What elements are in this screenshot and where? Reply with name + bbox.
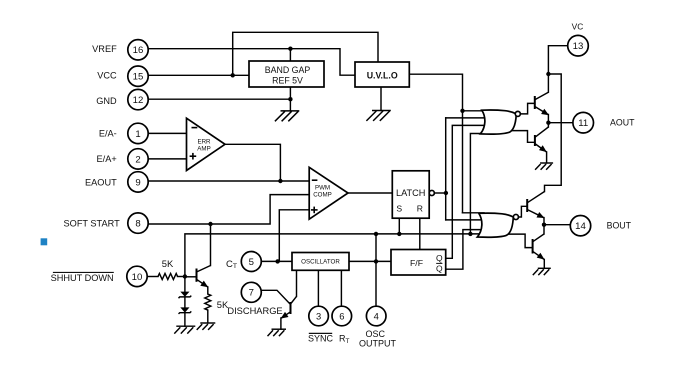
svg-text:BAND GAP: BAND GAP [265, 65, 311, 75]
ground shutdown resistor [197, 323, 216, 330]
svg-text:5: 5 [249, 257, 254, 268]
wire UVLO to NOR B input1 [463, 212, 485, 214]
junction dot GND band gap [288, 97, 292, 101]
wire Q3 emitter to ground [546, 152, 548, 163]
pin 5 CT circle [241, 252, 261, 272]
NOR gate A body [480, 110, 516, 134]
transistor Q4 output B top npn [527, 192, 544, 219]
pin 4 OSC OUTPUT circle [366, 306, 386, 326]
ground zener stack [174, 326, 195, 333]
wire Q1 emitter to 5K resistor [207, 287, 209, 294]
NOR gate B body [477, 213, 513, 237]
wire latch output to NOR B input2 [446, 219, 485, 221]
overline SYNC [309, 332, 332, 334]
wire oscillator output to F/F [349, 260, 391, 262]
svg-text:15: 15 [133, 72, 144, 83]
wire F/F Qbar output riser [446, 230, 484, 270]
junction dot CT ramp [275, 259, 279, 263]
wire pin7 to discharge transistor base [262, 290, 290, 304]
pin 3 SYNC circle [309, 306, 329, 326]
wire AOUT node to pin11 [548, 122, 572, 124]
blue square marker [41, 238, 48, 245]
wire latch R input from F/F [419, 218, 421, 249]
transistor Q2 output A top npn [535, 92, 549, 115]
svg-text:7: 7 [249, 288, 254, 299]
wire Q4 emitter to BOUT node [543, 218, 545, 225]
wire oscillator to discharge transistor collector [296, 270, 298, 296]
svg-text:13: 13 [573, 41, 584, 52]
overline F/F Qbar [436, 262, 442, 264]
svg-text:BOUT: BOUT [607, 221, 632, 231]
pin 7 DISCHARGE circle [241, 282, 261, 302]
junction dot blanking NOR B [468, 232, 472, 236]
junction dot latch output [444, 191, 448, 195]
wire EAOUT pin9 to PWM comp inverting input [147, 180, 311, 182]
wire VCC over band gap to UVLO top [233, 32, 378, 75]
junction dot UVLO NOR A [460, 109, 464, 113]
wire latch output riser [445, 118, 447, 220]
ground discharge [268, 329, 287, 336]
svg-text:1: 1 [135, 129, 140, 140]
svg-text:6: 6 [339, 310, 344, 321]
svg-text:SYNC: SYNC [308, 333, 334, 343]
svg-text:2: 2 [135, 154, 140, 165]
pin 12 GND circle [128, 89, 148, 109]
svg-text:16: 16 [133, 45, 144, 56]
transistor Q5 output B bottom npn [533, 234, 545, 260]
wire error amp output [225, 144, 280, 181]
svg-text:PWM: PWM [315, 184, 330, 191]
pin 9 EAOUT circle [128, 172, 148, 192]
wire BOUT node to pin14 [544, 224, 570, 226]
zener diode D2 [179, 307, 192, 314]
svg-text:Q: Q [436, 263, 443, 273]
junction dot AOUT node [546, 121, 550, 125]
pin 16 VREF circle [128, 40, 148, 60]
wire VCC pin15 to band gap [147, 74, 249, 76]
pin 2 E/A+ circle [128, 149, 148, 169]
svg-text:10: 10 [132, 272, 143, 283]
svg-text:VREF: VREF [92, 44, 117, 54]
wire oscillator to pin3 sync [317, 270, 319, 306]
wire latch output bubble to node [434, 192, 446, 194]
junction dot soft start [208, 222, 212, 226]
wire shutdown node to Q1 base [185, 276, 197, 278]
band gap reference box U2 [249, 61, 324, 87]
wire BOUT node to Q5 collector [543, 225, 545, 234]
svg-text:3: 3 [316, 310, 321, 321]
wire GND pin12 [147, 98, 290, 100]
wire VREF pin16 horizontal [147, 49, 355, 75]
wire VC pin13 down to rail node [548, 46, 567, 74]
svg-text:COMP: COMP [313, 191, 332, 198]
transistor Q1 shutdown npn [197, 266, 211, 288]
wire pin1 to error amp [147, 132, 188, 134]
ground output B [533, 268, 551, 275]
wire band gap to ground [289, 87, 291, 111]
svg-text:LATCH: LATCH [396, 188, 425, 198]
wire VREF to band gap top [289, 49, 291, 61]
oscillator box U6 [292, 253, 349, 271]
svg-text:CT: CT [226, 259, 237, 270]
wire blanking line oscillator to latch S and NOR gates [185, 234, 481, 277]
error amp minus glyph [192, 127, 198, 129]
svg-text:14: 14 [575, 221, 586, 232]
transistor Q6 discharge npn [281, 296, 297, 318]
wire Q5 emitter to ground [543, 260, 545, 269]
pin 13 VC circle [568, 35, 589, 56]
junction dot VCC UVLO branch [231, 73, 235, 77]
svg-text:GND: GND [96, 96, 117, 106]
wire 5K resistor to ground [207, 310, 209, 323]
wire Q2 emitter to AOUT node [547, 115, 549, 123]
wire VC rail to output B collector [545, 74, 562, 192]
wire soft start node to Q1 collector [210, 224, 212, 266]
resistor R1 5K horizontal [158, 274, 178, 280]
UVLO box U3 [355, 62, 409, 87]
wire pin10 to 5K resistor [148, 276, 158, 278]
op-amp PWM comparator U7 triangle [309, 167, 348, 219]
wire VC node to Q2 collector [547, 74, 549, 92]
wire discharge emitter to ground [280, 318, 282, 329]
op-amp error amp U1 triangle [187, 118, 226, 170]
resistor R2 5K vertical [205, 294, 211, 310]
wire blanking to oscillator output riser [375, 234, 377, 262]
svg-text:E/A-: E/A- [99, 129, 117, 139]
wire soft start pin8 to PWM comp middle input [149, 195, 311, 224]
wire between zeners [184, 297, 186, 308]
svg-text:9: 9 [135, 177, 140, 188]
junction dot BOUT node [542, 223, 546, 227]
wire zener to ground [184, 313, 186, 327]
pin 11 AOUT circle [573, 112, 594, 133]
wire UVLO to ground [380, 87, 382, 111]
svg-text:11: 11 [578, 118, 588, 129]
wire NOR A bottom to Q3 base [512, 131, 535, 143]
wire zener stack top [184, 277, 186, 292]
svg-text:U.V.L.O: U.V.L.O [367, 71, 398, 81]
svg-text:S: S [396, 203, 402, 213]
junction dot VREF band gap [288, 47, 292, 51]
flip flop box U5 [391, 250, 446, 276]
overline SHHUT DOWN [53, 271, 114, 273]
svg-text:12: 12 [133, 95, 144, 106]
pin 15 VCC circle [128, 66, 148, 86]
ground output A [535, 163, 553, 170]
error amp plus glyph [190, 155, 197, 157]
wire 5K resistor to shutdown node [178, 276, 185, 278]
wire pin2 to error amp [147, 158, 188, 160]
junction dot VC rail [546, 72, 550, 76]
zener diode D1 [179, 292, 192, 299]
wire AOUT node to Q3 collector [547, 123, 549, 127]
pin 6 RT circle [332, 306, 352, 326]
junction dot blanking line riser [374, 232, 378, 236]
pin 10 SHUTDOWN circle [127, 266, 147, 286]
svg-text:5K: 5K [162, 258, 174, 269]
wire F/F Q output riser [446, 125, 486, 258]
junction dot error amp EAOUT [278, 179, 282, 183]
svg-text:R: R [417, 203, 423, 213]
svg-text:OUTPUT: OUTPUT [359, 338, 397, 348]
wire blanking riser to NOR A input4 [470, 134, 482, 234]
pin 1 E/A- circle [128, 123, 148, 143]
wire NOR A output to Q2 base [521, 103, 534, 114]
wire oscillator to pin6 RT [340, 270, 342, 306]
svg-text:8: 8 [135, 219, 140, 230]
wire latch output to NOR A input2 [446, 117, 485, 119]
NOR gate A output bubble [515, 111, 520, 116]
svg-text:REF 5V: REF 5V [272, 76, 303, 86]
svg-text:F/F: F/F [410, 258, 423, 268]
svg-text:OSCILLATOR: OSCILLATOR [301, 259, 340, 266]
pin 8 SOFT START circle [128, 213, 148, 233]
svg-text:AMP: AMP [197, 146, 210, 153]
pin 14 BOUT circle [570, 216, 590, 236]
PWM comp minus glyph [312, 179, 318, 181]
wire CT pin5 to oscillator [262, 260, 292, 262]
svg-text:E/A+: E/A+ [97, 154, 117, 164]
svg-text:EAOUT: EAOUT [85, 177, 117, 187]
transistor Q3 output A bottom npn [535, 127, 549, 152]
wire PWM comp output to latch [348, 192, 392, 194]
latch output bubble [429, 190, 434, 195]
svg-text:4: 4 [374, 310, 379, 321]
wire NOR B output to Q4 base [518, 206, 527, 217]
svg-text:AOUT: AOUT [610, 118, 635, 128]
NOR gate B output bubble [513, 214, 518, 219]
svg-text:SOFT START: SOFT START [64, 218, 121, 228]
ground band gap [275, 111, 299, 121]
svg-text:VC: VC [572, 22, 584, 32]
junction dot oscillator output [374, 259, 378, 263]
ground UVLO [366, 111, 390, 121]
svg-text:VCC: VCC [97, 71, 117, 81]
svg-text:SHHUT DOWN: SHHUT DOWN [51, 273, 114, 283]
wire NOR B bottom to Q5 base [506, 234, 533, 248]
wire CT ramp to PWM comp plus input [279, 210, 311, 262]
junction dot latch S [397, 232, 401, 236]
svg-text:DISCHARGE: DISCHARGE [227, 306, 282, 316]
latch box U4 [392, 171, 429, 218]
svg-text:RT: RT [339, 334, 350, 346]
PWM comp plus glyph [311, 209, 318, 211]
wire oscillator output to pin4 [375, 261, 377, 305]
wire UVLO to NOR A input1 [463, 110, 485, 112]
wire UVLO output [409, 74, 462, 213]
svg-text:Q: Q [436, 253, 443, 263]
junction dot shutdown node [183, 274, 187, 278]
wire latch S input [398, 218, 400, 234]
